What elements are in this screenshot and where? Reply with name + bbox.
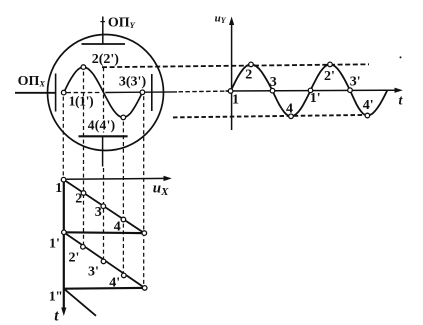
Y-plate top lead <box>102 17 104 45</box>
u_X axis horizontal <box>64 177 168 180</box>
svg-text:2': 2' <box>69 251 80 266</box>
svg-text:2: 2 <box>75 192 82 207</box>
markers: sine points <box>228 89 233 94</box>
screen axis solid segment <box>105 91 177 94</box>
svg-text:2': 2' <box>324 69 335 84</box>
dashed projection vertical from point 1 <box>62 97 64 177</box>
svg-text:4(4'): 4(4') <box>88 118 116 133</box>
CRT screen circle <box>48 35 164 151</box>
sawtooth tooth 3 partial <box>64 289 96 316</box>
screen trace sine <box>64 67 143 117</box>
sawtooth tooth 1 <box>64 180 145 234</box>
X-plate right <box>151 74 153 111</box>
svg-text:2: 2 <box>245 67 252 82</box>
dashed projection vertical from point 2 <box>83 72 85 246</box>
u_Y axis arrowhead <box>229 17 234 26</box>
dashed trough-level line <box>173 115 368 118</box>
u_Y axis vertical <box>231 21 233 130</box>
Y-plate bottom lead <box>102 136 104 166</box>
u_Y sine waveform <box>231 64 388 116</box>
svg-text:3': 3' <box>350 74 361 89</box>
svg-text:3: 3 <box>270 75 277 90</box>
screen axis dashed inside circle <box>67 92 102 94</box>
t axis arrowhead <box>395 88 403 93</box>
svg-text:1(1'): 1(1') <box>69 93 94 108</box>
dashed projection vertical from point 4 <box>122 122 124 275</box>
speck <box>400 56 402 58</box>
svg-text:1': 1' <box>310 91 321 106</box>
white backing for 4(4') <box>87 121 117 132</box>
time axis arrowhead <box>61 308 66 317</box>
svg-text:4: 4 <box>286 102 293 117</box>
dashed projection vertical from end point <box>143 96 145 286</box>
svg-text:1': 1' <box>49 236 60 251</box>
X-plate left <box>55 74 57 112</box>
retrace 2 <box>64 287 145 290</box>
svg-text:3: 3 <box>95 205 102 220</box>
retrace 1 <box>64 231 144 234</box>
sawtooth tooth 2 <box>64 232 145 288</box>
u_X axis arrowhead <box>164 176 172 181</box>
u_Y sine axis t <box>226 89 399 92</box>
svg-text:1: 1 <box>55 181 62 196</box>
X-plate left lead <box>15 92 56 94</box>
svg-text:4: 4 <box>114 219 121 234</box>
svg-text:t: t <box>54 307 59 324</box>
svg-text:4': 4' <box>109 275 120 290</box>
svg-text:3': 3' <box>88 265 99 280</box>
svg-text:1'': 1'' <box>49 290 62 305</box>
svg-text:3(3'): 3(3') <box>119 75 147 90</box>
markers: sawtooth tooth1 <box>61 177 66 182</box>
svg-text:4': 4' <box>363 98 374 113</box>
markers: sawtooth tooth2 <box>62 230 67 235</box>
Y-plate top <box>82 43 126 45</box>
tick on Y lead <box>100 21 105 23</box>
Y-plate bottom <box>79 135 128 137</box>
time axis vertical <box>63 179 65 312</box>
markers: screen trace <box>61 62 369 290</box>
svg-text:2(2'): 2(2') <box>92 52 120 67</box>
dashed link from screen to sine origin <box>179 90 229 93</box>
dashed peak-level line <box>102 64 369 67</box>
dashed projection vertical from point 3 <box>103 67 105 134</box>
svg-text:1: 1 <box>232 92 239 107</box>
